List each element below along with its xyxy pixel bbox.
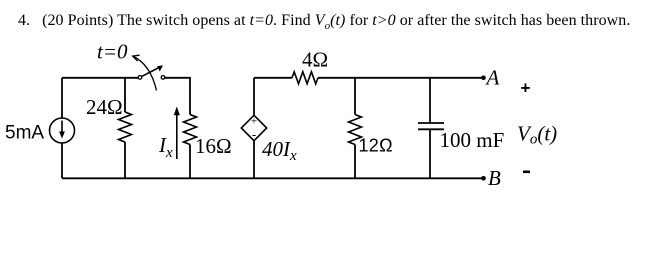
svg-text:16Ω: 16Ω xyxy=(195,134,232,158)
svg-text:Ix: Ix xyxy=(158,133,173,161)
svg-text:24Ω: 24Ω xyxy=(86,95,123,119)
svg-text:4Ω: 4Ω xyxy=(302,48,328,72)
svg-text:100 mF: 100 mF xyxy=(440,128,505,152)
svg-text:+: + xyxy=(521,79,531,98)
svg-text:40Ix: 40Ix xyxy=(262,137,297,164)
svg-text:A: A xyxy=(485,66,500,90)
svg-text:Vo(t): Vo(t) xyxy=(517,122,557,148)
svg-text:5mA: 5mA xyxy=(5,123,44,144)
svg-text:-: - xyxy=(252,127,256,142)
svg-text:12Ω: 12Ω xyxy=(359,136,393,156)
svg-text:t=0: t=0 xyxy=(97,40,128,64)
svg-text:B: B xyxy=(488,166,501,190)
